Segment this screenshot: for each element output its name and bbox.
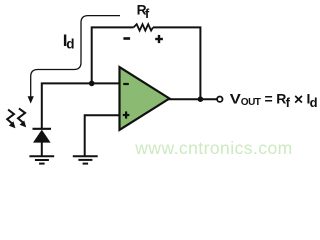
light arrows (photons into D1) bbox=[7, 108, 26, 128]
wire: non-inverting input to ground bbox=[85, 115, 120, 156]
wire: feedback right (top wire to output node) bbox=[153, 27, 200, 99]
photodiode D1 bbox=[33, 129, 52, 156]
svg-text:www.cntronics.com: www.cntronics.com bbox=[134, 138, 292, 158]
wire: output bbox=[168, 98, 217, 100]
svg-text:f: f bbox=[286, 95, 291, 110]
node: output junction bbox=[198, 96, 204, 102]
current arrow Id (annotation) bbox=[28, 16, 120, 104]
node: inverting input junction bbox=[89, 81, 95, 87]
svg-text:V: V bbox=[230, 90, 242, 106]
ground (photodiode) bbox=[29, 156, 54, 163]
svg-text:d: d bbox=[310, 95, 318, 110]
resistor Rf bbox=[134, 24, 154, 30]
wire: photodiode to inverting input bbox=[42, 83, 120, 129]
label VOUT = Rf x Id bbox=[230, 90, 318, 110]
polarity plus (Rf right) bbox=[155, 35, 163, 43]
wire: feedback left (top wire to inverting node) bbox=[92, 27, 134, 84]
svg-text:OUT: OUT bbox=[241, 97, 261, 108]
svg-text:×: × bbox=[294, 91, 303, 108]
svg-text:d: d bbox=[66, 36, 74, 51]
svg-text:=: = bbox=[265, 90, 273, 106]
ground (non-inverting input) bbox=[73, 156, 98, 163]
output terminal (open circle) bbox=[217, 97, 222, 102]
op-amp U1 bbox=[120, 67, 170, 130]
svg-text:f: f bbox=[145, 7, 150, 21]
polarity minus (Rf left) bbox=[123, 37, 130, 40]
